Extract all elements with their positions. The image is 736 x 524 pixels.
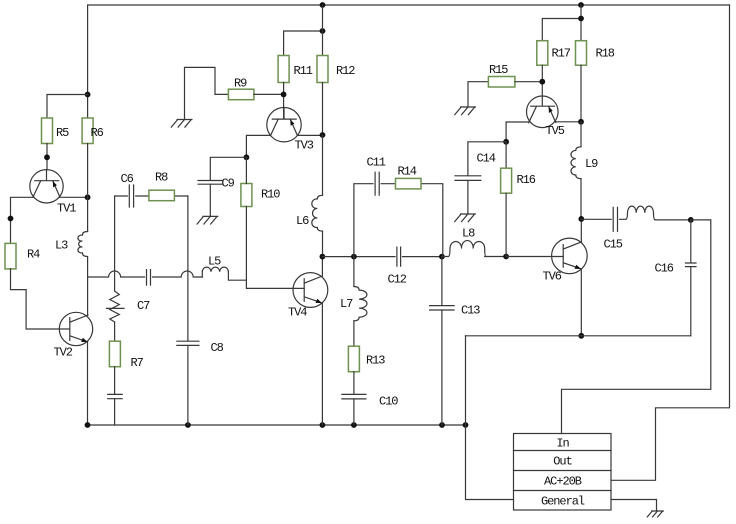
wire L7 top [353,257,355,287]
resistor R13 [348,346,359,372]
svg-text:R12: R12 [336,64,355,78]
svg-text:L7: L7 [340,297,353,311]
inductor L5 [202,267,228,272]
node rail C8 [185,422,191,428]
resistor R12 [317,56,328,83]
svg-text:C6: C6 [121,172,134,186]
node supply/R12 junction [320,2,326,8]
svg-text:C13: C13 [461,304,480,318]
node dot below R5 [44,154,50,160]
node rail C10 [351,422,357,428]
node rail corner [463,422,469,428]
svg-text:TV6: TV6 [543,270,562,284]
terminal box [514,434,612,511]
wire R12 top [322,5,324,56]
wire output to In row [562,220,711,434]
wire C13 top [441,257,443,306]
wire coil to C16 node [655,219,691,221]
node TV1/R6 junction [85,194,91,200]
wire right edge drop to AC+20B [611,5,730,480]
wire C13 to rail [441,310,443,425]
transistor TV2 [54,312,93,359]
transistor TV1 [30,170,77,216]
wire C15 row [581,218,625,220]
node R5/R6 top junction [85,92,91,98]
inductor L7 [354,287,367,321]
svg-text:R5: R5 [56,126,69,140]
varistor/zigzag element [107,291,125,322]
svg-text:R6: R6 [91,126,104,140]
capacitor C13 [430,306,455,310]
svg-text:C11: C11 [367,156,386,170]
svg-text:R13: R13 [366,354,385,368]
svg-text:C7: C7 [137,299,150,313]
resistor R17 [537,41,548,65]
wire TV5 right leg [556,121,581,123]
wire L9 to C15 node [580,179,582,219]
inductor (C15 output coil) [626,206,656,220]
svg-text:C12: C12 [388,273,407,287]
wire cap to rail [114,399,116,425]
wire L7 to R13 [353,321,355,346]
svg-text:R11: R11 [294,64,313,78]
wire TV6 emitter down [580,269,582,336]
inductor L5 posts [202,272,246,280]
capacitor C8 [177,341,199,345]
node C16/output [688,217,694,223]
wire R8 right leg / C8 top [187,196,189,341]
wire L3 to TV2 collector [87,258,89,316]
capacitor C16 [686,263,697,267]
resistor R11 [278,56,289,83]
resistor R6 [82,118,93,144]
capacitor C11 [375,172,379,195]
svg-text:R8: R8 [155,171,168,185]
node dot above R4 [8,216,14,222]
wire TV6 collector up [580,219,582,242]
svg-text:TV1: TV1 [57,202,76,216]
wire TV3 left leg down [246,135,270,157]
wire R5 to TV1 base [46,144,48,170]
svg-text:L3: L3 [55,239,68,253]
resistor R9 [228,89,254,100]
wire General to ground [611,500,657,512]
svg-text:R16: R16 [517,173,536,187]
wire R16 top [505,142,507,168]
wire L8 left [442,256,448,258]
node R15/R17/TV5 [539,79,545,85]
wire C16 top [690,220,692,263]
svg-text:TV3: TV3 [295,139,314,153]
resistor R5 [42,118,53,144]
svg-text:R4: R4 [27,248,40,262]
svg-text:R7: R7 [131,356,144,370]
wire TV1 emitter to R4 [11,197,33,243]
svg-text:R9: R9 [234,77,247,91]
node C9/R10 junction [244,154,250,160]
inductor L8 [448,241,486,257]
wire C14 to ground [467,180,469,214]
wire zigzag to R7 [114,322,116,341]
resistor R8 [149,190,175,201]
node R17/R18 split [578,16,584,22]
node TV3/R12/L6 [320,132,326,138]
wire TV5 left leg [506,122,529,142]
wire C6-R8 branch top [115,195,188,197]
svg-text:C16: C16 [655,262,674,276]
node TV5/C14/R16 [503,139,509,145]
svg-text:L9: L9 [585,157,598,171]
inductor L9 [571,147,581,179]
node TV5/R18/L9 [578,119,584,125]
capacitor C? [108,394,123,398]
capacitor C9 [198,181,223,185]
ground (C14) [455,214,476,222]
wire ground to R15 [468,82,488,107]
wire R13 to C10 [353,372,355,394]
wire to C14 [468,142,506,176]
resistor R10 [241,184,252,207]
wire R11 bottom to TV3 base [283,83,285,119]
node rail C13 [439,422,445,428]
wire emitter rail [466,335,691,337]
svg-text:R15: R15 [489,63,508,77]
svg-text:C10: C10 [379,395,398,409]
wire L6 top [322,135,324,195]
svg-text:Out: Out [553,455,571,469]
svg-text:AC+20B: AC+20B [544,475,582,489]
svg-text:General: General [541,495,585,509]
wire rail-corner down to General row [466,336,514,500]
transistor TV4 [288,273,328,320]
resistor R7 [109,341,120,367]
wire L6 bottom to node [322,231,324,257]
node L9/TV6/C15 [578,216,584,222]
resistor R15 [488,77,515,88]
svg-text:TV4: TV4 [288,306,307,320]
wire R7 to bypass cap [114,367,116,394]
wire C12 row [322,256,442,258]
node R11/R12 [320,28,326,34]
svg-text:TV5: TV5 [546,124,565,138]
svg-text:R18: R18 [596,47,615,61]
resistor R4 [5,243,16,269]
resistor R18 [576,41,587,65]
svg-text:TV2: TV2 [54,346,73,360]
svg-text:R10: R10 [261,188,280,202]
wire TV3 right leg [297,134,322,136]
node rail TV2 [85,422,91,428]
wire TV4 collector up [321,257,323,276]
wire R11 top branch [284,31,323,56]
svg-text:C15: C15 [604,238,623,252]
transistor TV3 [267,108,314,153]
node rail TV4 [320,422,326,428]
svg-text:In: In [556,437,569,451]
capacitor C14 [455,176,481,181]
wire TV6 base [506,256,563,258]
wire R4 to TV2 base [11,269,70,329]
transistor TV5 [527,96,565,138]
wire ground to R9 [185,67,229,119]
wire R6 bottom to L3 [87,144,89,232]
wire R17 to TV5 [541,65,543,96]
svg-text:C9: C9 [222,177,235,191]
node R9/R11/TV3 [281,92,287,98]
wire R9 to TV3 base [254,93,284,95]
wire R12 bottom to TV3 collector junction [322,83,324,136]
svg-text:C14: C14 [477,152,496,166]
wire R18 to TV5 right leg [580,65,582,122]
svg-text:R17: R17 [552,47,571,61]
inductor L6 [312,195,323,231]
wire top supply rail [88,4,730,6]
wire TV4 emitter to rail [321,303,323,425]
wire L9 top [580,122,582,147]
wire L8 to R16/TV6 node [485,256,506,258]
ground (R15 branch) [455,107,476,115]
node L8/R16/TV6 [503,254,509,260]
wire R5 top branch [47,95,88,119]
ground (General) [647,511,663,517]
wire R10 top [245,157,247,183]
svg-text:L5: L5 [208,255,221,269]
capacitor C12 [397,247,401,266]
svg-text:L8: L8 [462,227,475,241]
wire to C9 [210,157,246,180]
wire TV2 emitter to ground rail [87,342,89,425]
ground (R9 branch) [171,120,192,128]
svg-text:C8: C8 [211,341,224,355]
capacitor C10 [342,394,366,399]
wire TV1 collector to R6 line [60,196,88,198]
transistor TV6 [543,238,588,283]
wire V+ down to R6 [87,5,89,118]
node L6/TV4/C12 [320,254,326,260]
wire C11-R14 loop [354,184,443,257]
node C13 branch [439,254,445,260]
wire L3 node to L5 (with crossover hops) [88,271,203,277]
wire C9 to ground [209,184,211,216]
wire R15 to TV5 base [515,81,542,83]
wire C16 bottom to emitter rail [690,267,692,336]
capacitor C15 [613,207,617,231]
node supply/R17R18 junction [578,2,584,8]
wire R16 to TV6 node [505,193,507,256]
wire supply to R17/R18 [542,5,581,41]
ground (C9) [197,216,218,224]
wire C8 to rail [187,345,189,425]
inductor L3 [78,232,88,257]
capacitor C6 [129,185,133,207]
wire C6 left leg down [114,196,116,291]
node C11/L7 branch [351,254,357,260]
resistor R14 [396,178,422,189]
wire R10 to TV4 base [246,207,304,289]
wire bottom ground rail [88,424,466,426]
node TV6 emitter rail [578,333,584,339]
svg-text:L6: L6 [296,214,309,228]
svg-text:R14: R14 [398,165,417,179]
resistor R16 [501,168,512,193]
capacitor C7 [147,270,151,286]
wire C10 to rail [353,399,355,425]
